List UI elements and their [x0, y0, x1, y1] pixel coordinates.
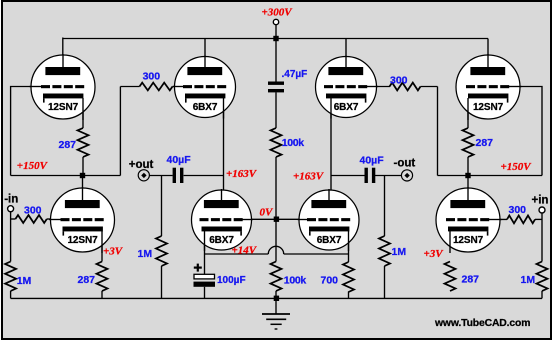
wire R287-1 to node	[82, 157, 84, 176]
tube U1 12SN7 upper-left	[31, 55, 95, 119]
capacitor .47uF C1	[268, 82, 284, 85]
svg-text:287: 287	[462, 274, 480, 286]
wire U6 cathode to C4	[204, 254, 206, 274]
wire +14V link with hop	[205, 253, 269, 255]
wire -in column	[10, 212, 12, 262]
tube U7 6BX7 lower-right-middle	[299, 190, 359, 250]
resistor 300 (-in)	[15, 215, 46, 223]
tube U3 6BX7 upper-right-middle	[316, 57, 377, 118]
wire U4 cathode lead	[467, 98, 469, 128]
resistor 100k upper	[271, 128, 282, 157]
wire U3 grid to R300-3	[369, 86, 390, 88]
wire riser R300-3 to right rail	[437, 87, 439, 176]
svg-text:1M: 1M	[17, 275, 32, 287]
wire R1M-2 to ground bus	[161, 266, 163, 298]
svg-text:300: 300	[24, 205, 42, 217]
svg-text:12SN7: 12SN7	[48, 102, 79, 113]
svg-text:+150V: +150V	[501, 161, 533, 173]
junction node 0V	[274, 217, 279, 222]
wire +in column	[541, 213, 543, 262]
svg-text:-in: -in	[4, 194, 18, 206]
svg-text:www.TubeCAD.com: www.TubeCAD.com	[434, 318, 530, 329]
wire plate lead U1	[62, 38, 64, 68]
wire U3 cathode / U7 plate column +163V	[330, 98, 332, 201]
svg-text:0V: 0V	[260, 206, 275, 218]
svg-text:100µF: 100µF	[217, 275, 246, 286]
ground symbol	[262, 313, 290, 315]
resistor 287 (lower left)	[97, 262, 108, 292]
junction right +150V node	[465, 173, 470, 178]
wire ground bus	[11, 297, 542, 299]
wire R300-4 leads	[490, 218, 507, 220]
svg-text:12SN7: 12SN7	[67, 235, 98, 246]
svg-text:40µF: 40µF	[360, 155, 385, 167]
svg-text:6BX7: 6BX7	[334, 102, 359, 113]
svg-text:287: 287	[476, 137, 494, 149]
wire U6 cathode lead	[204, 231, 206, 254]
wire R287-2 to ground bus	[101, 291, 103, 298]
svg-text:+out: +out	[129, 159, 154, 171]
svg-text:+150V: +150V	[17, 160, 49, 172]
svg-text:300: 300	[143, 71, 161, 83]
terminal +300V	[273, 19, 278, 24]
wire riser to R300-1	[119, 87, 121, 176]
svg-text:+300V: +300V	[262, 7, 294, 19]
wire R300-1 leads	[120, 86, 139, 88]
tube U8 12SN7 lower-right	[436, 188, 500, 252]
wire left +150V rail	[11, 175, 121, 177]
resistor 300 (+in)	[507, 216, 535, 224]
resistor 300 (upper right)	[390, 83, 421, 91]
svg-text:+163V: +163V	[226, 168, 258, 180]
resistor 1M (-out)	[379, 236, 390, 266]
wire R700 to ground bus	[348, 292, 350, 299]
wire center column upper	[275, 39, 277, 82]
svg-text:100k: 100k	[284, 274, 307, 286]
wire U7 cathode lead	[348, 231, 350, 262]
wire plate lead U8	[467, 176, 469, 202]
wire 100k to node 0V	[275, 157, 277, 219]
svg-text:300: 300	[390, 74, 408, 86]
wire U1 grid	[11, 87, 41, 176]
wire U4 grid	[510, 87, 542, 176]
wire +300V terminal drop	[275, 25, 277, 39]
svg-text:+3V: +3V	[424, 248, 445, 260]
svg-text:287: 287	[59, 139, 77, 151]
wire top bus +300V rail	[63, 38, 488, 40]
svg-text:12SN7: 12SN7	[453, 235, 484, 246]
svg-text:1M: 1M	[521, 274, 536, 286]
resistor 1M (+out)	[156, 236, 167, 266]
junction left +150V node	[80, 173, 85, 178]
capacitor 40uF C2	[173, 168, 176, 183]
svg-text:+in: +in	[532, 195, 549, 207]
wire plate lead U4	[487, 39, 489, 68]
resistor 1M (+in)	[537, 262, 548, 292]
terminal -in	[8, 206, 14, 212]
tube U2 6BX7 upper-left-middle	[175, 57, 236, 118]
svg-text:+14V: +14V	[232, 245, 258, 257]
svg-text:700: 700	[321, 275, 339, 287]
wire ground stem	[275, 298, 277, 314]
svg-text:40µF: 40µF	[167, 154, 192, 166]
wire right +150V rail	[438, 175, 543, 177]
svg-text:287: 287	[78, 274, 96, 286]
wire lower 100k to ground bus	[275, 291, 277, 298]
wire C1 to R-100k	[275, 92, 277, 128]
wire C2 to +163V node	[184, 175, 224, 177]
svg-text:-out: -out	[394, 157, 416, 169]
resistor 287 (lower right)	[445, 262, 456, 292]
wire R287-3 to node	[467, 157, 469, 176]
junction ground bus	[274, 296, 279, 301]
wire R1M-4 to ground bus	[541, 291, 543, 298]
tube U5 12SN7 lower-left	[51, 188, 115, 252]
wire plate lead U5	[82, 176, 84, 202]
wire R1M-1 to ground bus	[10, 291, 12, 298]
resistor 100k lower	[271, 262, 282, 292]
terminal -out	[401, 170, 412, 181]
svg-text:6BX7: 6BX7	[193, 102, 218, 113]
svg-text:6BX7: 6BX7	[317, 235, 342, 246]
svg-text:300: 300	[509, 204, 527, 216]
wire R1M-3 to ground bus	[384, 266, 386, 298]
wire +out to C2	[149, 175, 173, 177]
svg-text:+3V: +3V	[103, 246, 124, 258]
svg-text:1M: 1M	[392, 246, 407, 258]
svg-text:+163V: +163V	[293, 171, 325, 183]
resistor 300 (upper left)	[140, 83, 173, 91]
wire node 0V to lower 100k	[275, 219, 277, 261]
wire plate lead U2	[204, 39, 206, 68]
wire plate lead U3	[345, 39, 347, 68]
svg-text:1M: 1M	[138, 248, 153, 260]
plus sign C4	[194, 267, 202, 269]
resistor 287 (upper right)	[463, 128, 474, 157]
wire R300-2 lead	[11, 218, 16, 220]
svg-text:12SN7: 12SN7	[473, 102, 504, 113]
wire U6 grid to node 0V	[244, 218, 277, 220]
capacitor 100uF C4 electrolytic	[194, 274, 215, 279]
wire U2 cathode / U6 plate column +163V	[223, 98, 225, 201]
resistor 700	[343, 262, 354, 292]
svg-text:.47µF: .47µF	[282, 69, 308, 80]
tube U6 6BX7 lower-left-middle	[192, 190, 252, 250]
capacitor 40uF C3	[365, 168, 368, 183]
terminal +out	[138, 170, 149, 181]
wire -out link	[331, 175, 365, 177]
resistor 1M (lower left)	[5, 262, 16, 292]
wire C4 to ground bus	[204, 287, 206, 299]
wire U7 grid to node 0V	[276, 218, 307, 220]
wire R1M-3 riser	[384, 176, 386, 237]
wire U1 cathode lead	[82, 98, 84, 128]
wire U5 cathode lead	[101, 231, 103, 261]
svg-text:100k: 100k	[282, 137, 305, 149]
tube U4 12SN7 upper-right	[456, 55, 520, 119]
junction top bus	[273, 36, 278, 41]
wire R1M-2 riser	[161, 176, 163, 237]
resistor 287 (upper left)	[78, 128, 89, 157]
terminal +in	[539, 207, 545, 213]
